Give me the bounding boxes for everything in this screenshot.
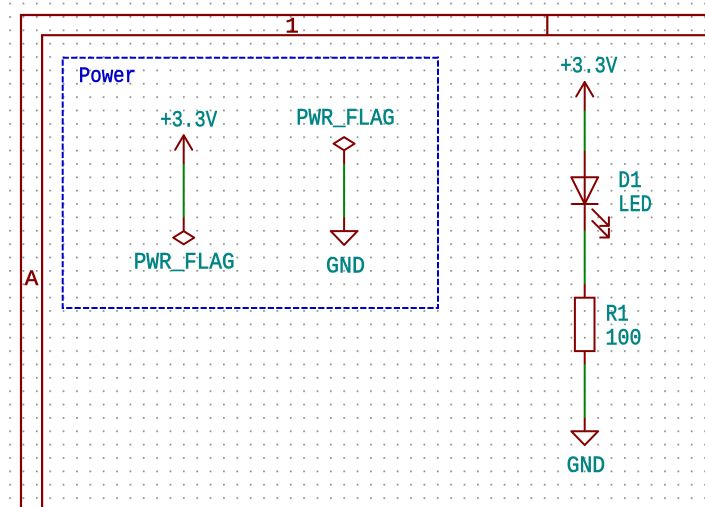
LED D1 emission arrow 2 (592, 221, 609, 238)
LED D1 emission arrow 1 (592, 209, 609, 226)
power symbol +3.3V (PWR1) stem (183, 135, 185, 164)
PWR_FLAG #2 stem (343, 150, 345, 164)
svg-text:A: A (25, 266, 39, 292)
svg-text:Power: Power (79, 63, 137, 89)
LED D1 triangle (571, 177, 598, 204)
ground GND #2 stem (343, 217, 345, 231)
svg-text:PWR_FLAG: PWR_FLAG (134, 250, 235, 277)
wire LED cathode to R1 (584, 231, 586, 285)
ground GND #1 triangle (571, 431, 598, 445)
PWR_FLAG #2 diamond (334, 137, 355, 150)
Power group dashed box (63, 58, 438, 308)
resistor R1 body (575, 298, 595, 351)
ground GND #1 stem (584, 418, 586, 432)
svg-text:LED: LED (618, 192, 652, 219)
column divider tick (546, 15, 548, 35)
svg-text:GND: GND (567, 453, 606, 480)
resistor R1 top pin (584, 284, 586, 298)
svg-text:100: 100 (606, 325, 642, 352)
LED D1 pin stem (584, 151, 586, 231)
wire +3.3V to LED anode (584, 110, 586, 151)
ground GND #2 triangle (331, 231, 358, 245)
svg-text:GND: GND (326, 253, 365, 280)
PWR_FLAG #1 stem (183, 217, 185, 231)
resistor R1 bottom pin (584, 351, 586, 364)
wire PWR_FLAG to GND (343, 164, 345, 217)
power symbol +3.3V (right) arrow wings (576, 82, 593, 97)
svg-text:+3.3V: +3.3V (560, 54, 617, 81)
power symbol +3.3V (right) stem (584, 82, 586, 110)
wire +3.3V to PWR_FLAG (183, 164, 185, 217)
svg-text:D1: D1 (618, 168, 642, 195)
LED D1 cathode bar (571, 203, 598, 205)
svg-text:1: 1 (285, 14, 299, 40)
svg-text:+3.3V: +3.3V (160, 107, 217, 134)
PWR_FLAG #1 diamond (173, 231, 194, 244)
svg-text:PWR_FLAG: PWR_FLAG (296, 106, 395, 133)
power symbol +3.3V (PWR1) arrow wings (175, 135, 192, 150)
wire R1 to GND (584, 364, 586, 417)
